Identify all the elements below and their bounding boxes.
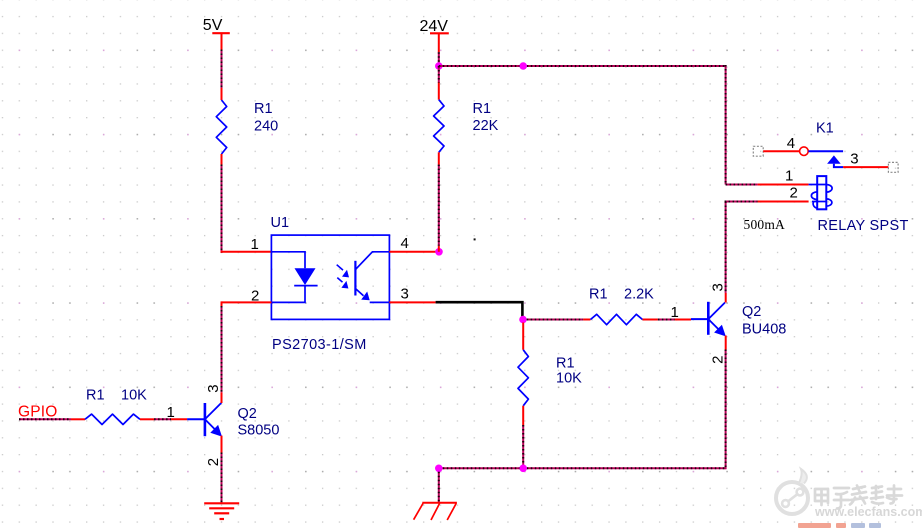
wire base wire mid <box>658 319 675 321</box>
svg-text:5V: 5V <box>203 17 223 34</box>
wire 10K to base 1 <box>140 418 154 420</box>
svg-text:240: 240 <box>254 119 278 135</box>
resistor R1 10K (GPIO) <box>85 414 140 424</box>
junction pin4 node <box>435 248 443 256</box>
svg-text:K1: K1 <box>816 121 834 137</box>
wire black net from pin 3 <box>436 302 523 319</box>
junction rail mid node <box>519 62 527 70</box>
wire S8050 emitter down <box>221 436 223 453</box>
label R1 10K pulldown <box>556 356 582 387</box>
resistor R1 2.2K <box>591 314 643 324</box>
transistor Q2 BU408 <box>691 302 726 337</box>
junction 24V node <box>435 62 443 70</box>
svg-text:www.elecfans.com: www.elecfans.com <box>814 505 922 519</box>
svg-text:Q2: Q2 <box>742 304 761 320</box>
resistor R1 10K pulldown <box>518 350 528 406</box>
U1 LED internal <box>271 252 317 303</box>
wire relay pin1 <box>758 184 809 186</box>
wire relay pin2 down to collector <box>725 202 727 293</box>
earth ground <box>414 503 457 520</box>
pin 3 label BU408 collector <box>709 283 726 291</box>
svg-text:500mA: 500mA <box>744 217 786 232</box>
watermark bottom cut text <box>798 523 881 528</box>
power 24V <box>420 18 449 52</box>
pin 2 label BU408 emitter <box>709 356 726 364</box>
wire into U1 pin 1 <box>221 251 272 253</box>
wire pin2 down to S8050 collector <box>221 306 223 392</box>
U1 phototransistor <box>355 252 389 303</box>
svg-text:1: 1 <box>671 304 679 321</box>
junction bottom rail 10K node <box>519 465 527 473</box>
wire below 24V node <box>438 66 440 83</box>
label R1 10K (GPIO) <box>86 388 147 404</box>
wire node to R1 10K pulldown <box>522 323 524 350</box>
svg-text:GPIO: GPIO <box>18 404 58 421</box>
svg-text:2: 2 <box>205 458 222 466</box>
svg-text:R1: R1 <box>473 101 492 117</box>
resistor R1 240 <box>216 100 226 154</box>
svg-text:1: 1 <box>167 404 175 421</box>
svg-text:10K: 10K <box>556 371 582 387</box>
resistor R1 22K <box>434 100 444 153</box>
svg-text:3: 3 <box>850 151 858 168</box>
wire 5V to R1 <box>221 88 223 100</box>
wire GPIO lead red <box>71 418 85 420</box>
svg-text:4: 4 <box>401 235 409 252</box>
label Q2 (S8050) <box>238 406 280 439</box>
wire 24V rail drop to relay <box>725 65 727 185</box>
wire U1 pin2 corner <box>221 301 223 306</box>
pin 2 label S8050 emitter <box>205 458 222 466</box>
wire U1 pin3 stub <box>389 301 435 303</box>
svg-text:2.2K: 2.2K <box>624 287 654 303</box>
wire contact pin3 lead <box>843 166 888 168</box>
K1 contact pivot circle <box>800 147 809 156</box>
wire R1 10K lower <box>522 406 524 425</box>
label Q2 (BU408) <box>742 304 786 338</box>
svg-text:2: 2 <box>790 185 798 202</box>
svg-text:PS2703-1/SM: PS2703-1/SM <box>272 337 367 353</box>
wire U1 pin 2 wire <box>222 301 272 303</box>
svg-text:R1: R1 <box>556 356 575 372</box>
wire emitter to ground <box>221 453 223 503</box>
svg-text:RELAY SPST: RELAY SPST <box>818 218 909 234</box>
wire base wire right <box>675 319 691 321</box>
wire relay pin2 left <box>725 201 758 203</box>
wire R1 22K lower <box>438 152 440 164</box>
svg-text:1: 1 <box>251 236 259 253</box>
wire to R1 22K <box>438 83 440 100</box>
K1 contact blade <box>808 150 843 152</box>
wire 24V stem lower <box>438 52 440 66</box>
wire 5V stem <box>221 50 223 89</box>
ground (GND bars) <box>204 503 239 519</box>
svg-text:S8050: S8050 <box>238 423 280 439</box>
label R1 240 <box>254 101 278 135</box>
wire U1 pin4 to 24V node <box>389 251 439 253</box>
svg-text:R1: R1 <box>589 287 608 303</box>
watermark text <box>815 486 902 509</box>
wire BU408 collector up <box>725 293 727 303</box>
svg-text:U1: U1 <box>271 215 290 231</box>
svg-text:22K: 22K <box>473 118 499 134</box>
stray dot mark <box>474 238 476 240</box>
K1 contact arrow <box>827 155 843 167</box>
K1 contact terminal 4 pad <box>753 146 763 156</box>
wire 22K to pin4 node <box>438 165 440 246</box>
svg-text:10K: 10K <box>121 388 147 404</box>
wire 10K to bottom rail <box>522 425 524 468</box>
wire base wire mid S8050 <box>154 418 171 420</box>
wire into R1 2.2K <box>583 319 590 321</box>
wire into pin4 node <box>438 246 440 252</box>
wire BU408 emitter down <box>725 336 727 350</box>
power 5V <box>203 17 230 49</box>
K1 contact terminal 3 pad <box>888 162 898 172</box>
wire relay pin1 left <box>726 184 758 186</box>
wire base wire right S8050 <box>171 418 187 420</box>
svg-text:R1: R1 <box>86 388 105 404</box>
wire contact pin4 lead <box>763 150 799 152</box>
wire 24V rail to relay <box>439 65 726 67</box>
wire emitter to bottom rail <box>725 350 727 470</box>
wire relay pin2 <box>758 201 809 203</box>
wire node to R1 2.2K <box>527 319 584 321</box>
svg-text:4: 4 <box>787 135 795 152</box>
svg-text:3: 3 <box>709 283 726 291</box>
junction base node <box>519 316 527 324</box>
wire R1 240 to corner <box>221 154 223 165</box>
label R1 22K <box>473 101 499 134</box>
pin 3 label S8050 collector <box>205 384 222 392</box>
wire down to earth ground <box>438 472 440 503</box>
wire down to U1 pin1 corner <box>221 165 223 253</box>
svg-text:BU408: BU408 <box>742 322 786 338</box>
svg-text:3: 3 <box>401 286 409 303</box>
svg-text:3: 3 <box>205 384 222 392</box>
wire S8050 collector up <box>221 392 223 403</box>
op-amp U1 body (optocoupler PS2703) <box>271 235 389 319</box>
svg-text:1: 1 <box>785 168 793 185</box>
svg-text:Q2: Q2 <box>238 406 257 422</box>
wire GPIO lead <box>19 418 71 420</box>
U1 light arrows <box>337 265 349 289</box>
junction bottom rail gnd node <box>435 465 443 473</box>
watermark logo <box>776 469 808 514</box>
label R1 2.2K <box>589 287 654 303</box>
relay K1 coil <box>809 176 833 209</box>
wire bottom rail <box>439 467 726 469</box>
svg-text:R1: R1 <box>254 101 273 117</box>
svg-text:2: 2 <box>709 356 726 364</box>
wire R1 2.2K to base <box>643 319 658 321</box>
transistor Q2 S8050 <box>187 403 222 437</box>
